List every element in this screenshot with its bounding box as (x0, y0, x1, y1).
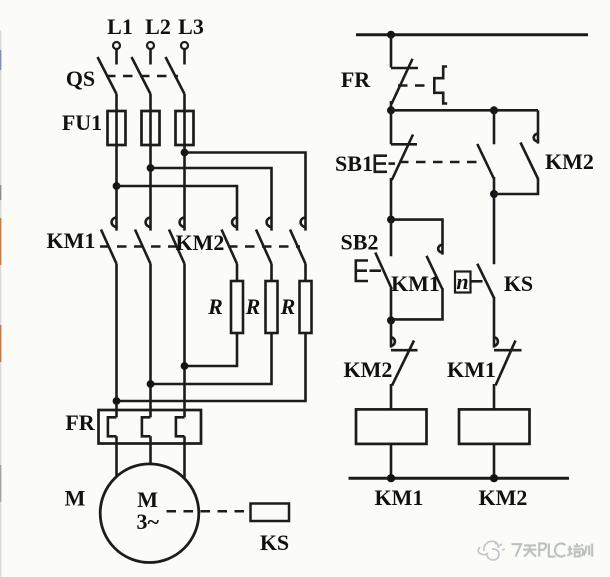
KS actuator dash (472, 280, 483, 283)
SB2 button actuator (356, 261, 368, 282)
wire FR to motor phase 3 (183, 436, 186, 477)
svg-text:KM2: KM2 (344, 357, 393, 382)
svg-text:FU1: FU1 (62, 110, 102, 135)
top supply rail (356, 33, 588, 36)
switch QS pole 3 (166, 57, 185, 94)
QS linkage dashed (106, 75, 178, 78)
svg-text:KM1: KM1 (47, 228, 96, 253)
wire SB1NO top (493, 110, 496, 144)
speed relay symbol box n (455, 272, 471, 293)
svg-text:KM1: KM1 (447, 357, 496, 382)
speed relay KS NO contact (477, 264, 494, 348)
left edge scan artifact (0, 30, 2, 577)
coil KM2 (459, 409, 530, 444)
wire L3 main lower (183, 264, 186, 417)
wire KM2 pole 6 to resistor (304, 264, 307, 281)
svg-text:KS: KS (260, 530, 289, 555)
wire KM1 aux branch top (391, 220, 443, 255)
wire crossover L2 to KM2 pole 5 (151, 168, 272, 231)
svg-text:R: R (207, 294, 223, 319)
svg-text:KS: KS (504, 271, 533, 296)
coil KM1 (356, 409, 427, 444)
svg-text:SB1: SB1 (335, 151, 373, 176)
wire crossover L1 to KM2 pole 4 (117, 186, 238, 231)
node coil KM1 rail (387, 474, 395, 482)
wire L3 main upper (183, 94, 186, 231)
contactor KM2 main contact 5 (256, 217, 272, 264)
SB1 actuator link dash (389, 162, 396, 165)
node R1-L3 (181, 362, 189, 370)
svg-text:FR: FR (341, 67, 371, 92)
contactor KM1 NC interlock (494, 337, 522, 409)
SB1 linkage dashed to NO contact (399, 161, 481, 164)
contactor KM2 main contact 4 (222, 217, 238, 264)
node coil KM2 rail (490, 474, 498, 482)
svg-text:QS: QS (66, 66, 95, 91)
node L3 branch (181, 149, 189, 157)
fuse FU1 pole 3 (176, 111, 194, 145)
wire coil KM1 to rail (390, 444, 393, 478)
svg-text:R: R (245, 294, 261, 319)
wire crossover L3 to KM2 pole 6 (185, 153, 306, 231)
pushbutton SB1 NC contact (391, 135, 417, 220)
svg-text:M: M (65, 486, 86, 511)
bottom supply rail (349, 477, 570, 480)
FR heater element 2 (142, 417, 151, 436)
contactor KM1 NO aux contact (391, 245, 443, 320)
svg-text:KM2: KM2 (479, 485, 528, 510)
pushbutton SB1 NO contact (477, 144, 494, 264)
node L2 branch (147, 164, 155, 172)
watermark logo (478, 541, 505, 560)
wire L1 main upper (115, 94, 118, 231)
svg-text:KM2: KM2 (545, 149, 594, 174)
FR trip actuator symbol (434, 67, 447, 104)
wire L3 lead (183, 50, 186, 65)
wire branch to KM2 column (391, 109, 538, 112)
wire R1 to node L3 (185, 333, 238, 366)
contactor KM1 main contact 1 (101, 217, 117, 264)
terminal L2 (147, 42, 154, 49)
contactor KM1 main contact 3 (169, 217, 185, 264)
KM2 linkage dashed (228, 245, 300, 248)
svg-text:KM2: KM2 (176, 230, 225, 255)
terminal L3 (181, 42, 188, 49)
node L1 branch (113, 182, 121, 190)
wire coil KM2 to rail (493, 444, 496, 478)
wire rail to FR contact (390, 35, 393, 68)
wire L2 main lower (149, 264, 152, 417)
KM1 linkage dashed (100, 245, 184, 248)
contactor KM2 NC interlock (391, 320, 418, 409)
pushbutton SB2 NO contact (375, 220, 392, 321)
switch QS pole 1 (98, 57, 117, 94)
wire KM2 pole 4 to resistor (236, 264, 239, 281)
wire R3 to node L1 (117, 333, 306, 401)
svg-text:KM1: KM1 (391, 271, 440, 296)
SB1 button actuator (375, 156, 387, 172)
wire FR to motor phase 2 (149, 436, 152, 465)
thermal relay FR NC contact (391, 59, 418, 111)
FR heater element 1 (108, 417, 117, 436)
node KM2 aux rejoin (490, 190, 498, 198)
svg-text:L1: L1 (107, 14, 133, 39)
speed relay KS sensor box (251, 504, 290, 522)
svg-text:L3: L3 (178, 14, 204, 39)
node SB2 branch (387, 216, 395, 224)
fuse FU1 pole 1 (108, 111, 126, 145)
thermal relay FR heater box (99, 410, 202, 444)
contactor KM1 main contact 2 (135, 217, 151, 264)
watermark text 7天PLC培训 (512, 543, 593, 556)
wire R2 to node L2 (151, 333, 272, 384)
wire L2 lead (149, 50, 152, 65)
node SB1-NO column (490, 106, 498, 114)
wire L2 main upper (149, 94, 152, 231)
switch QS pole 2 (132, 57, 151, 94)
contactor KM2 main contact 6 (290, 217, 306, 264)
svg-text:3~: 3~ (137, 509, 160, 534)
motor M (100, 464, 199, 563)
node rail-FR (387, 31, 395, 39)
svg-text:n: n (456, 269, 468, 294)
terminal L1 (113, 42, 120, 49)
resistor R3 (300, 281, 312, 333)
wire FR to motor phase 1 (115, 436, 118, 477)
node R2-L2 (147, 380, 155, 388)
FR heater element 3 (176, 417, 185, 436)
svg-text:FR: FR (65, 410, 95, 435)
SB2 actuator link dash (370, 269, 382, 272)
resistor R2 (266, 281, 278, 333)
wire KM2 pole 5 to resistor (270, 264, 273, 281)
node R3-L1 (113, 397, 121, 405)
svg-text:R: R (280, 294, 296, 319)
svg-text:L2: L2 (145, 14, 171, 39)
wire L1 main lower (115, 264, 118, 417)
contactor KM2 NO aux contact (494, 134, 538, 194)
svg-text:SB2: SB2 (341, 230, 379, 255)
fuse FU1 pole 2 (142, 111, 160, 145)
resistor R1 (231, 281, 243, 333)
wire KM2 aux branch (537, 110, 540, 143)
wire to SB1 NC (390, 110, 393, 144)
node branch split (387, 106, 395, 114)
wire L1 lead (115, 50, 118, 65)
motor shaft dashed link to KS (167, 510, 251, 513)
svg-text:KM1: KM1 (375, 485, 424, 510)
node KM1 aux rejoin (387, 316, 395, 324)
FR trip dashed link (398, 84, 430, 87)
